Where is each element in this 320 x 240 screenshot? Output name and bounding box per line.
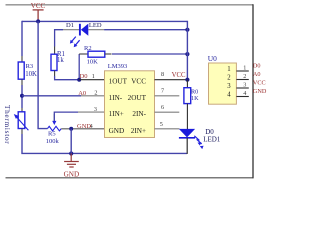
- wire D1 anode stub: [88, 29, 104, 31]
- svg-text:5: 5: [160, 121, 163, 128]
- wire U0 pin1 stub: [236, 70, 248, 72]
- wire U0 pin4 stub: [236, 96, 248, 98]
- svg-text:7: 7: [161, 87, 164, 94]
- potentiometer R5: [46, 114, 62, 145]
- svg-text:4: 4: [227, 91, 231, 98]
- wire D0 node to IC pin1: [79, 79, 104, 81]
- wire top VCC rail: [22, 20, 187, 22]
- svg-text:LED: LED: [89, 22, 102, 29]
- wire R1 bottom to D0 node: [55, 76, 80, 80]
- wire R1 top stub: [54, 47, 56, 55]
- svg-text:2: 2: [243, 73, 246, 80]
- svg-text:2IN-: 2IN-: [132, 110, 146, 118]
- node junction VCC stem: [36, 19, 40, 23]
- svg-text:GND: GND: [77, 123, 91, 130]
- svg-text:VCC: VCC: [31, 2, 46, 10]
- svg-text:VCC: VCC: [172, 72, 186, 79]
- wire U0 pin2 stub: [236, 79, 248, 81]
- ground symbol: [64, 154, 80, 179]
- power symbol VCC: [31, 2, 46, 21]
- wire R2 left stub: [79, 53, 88, 55]
- node junction LED row: [185, 28, 189, 32]
- svg-text:1K: 1K: [191, 95, 199, 102]
- wire D1 cathode stub: [63, 29, 80, 31]
- wire R2 to VCC column: [112, 53, 187, 55]
- wire VCC column right: [186, 21, 188, 80]
- LED D0 LED1: [179, 128, 221, 149]
- svg-text:2: 2: [227, 74, 231, 81]
- svg-text:2OUT: 2OUT: [128, 94, 147, 102]
- LED D1: [66, 22, 102, 47]
- svg-text:1IN-: 1IN-: [109, 94, 123, 102]
- svg-text:R3: R3: [26, 63, 34, 70]
- svg-text:GND: GND: [64, 171, 80, 179]
- node junction R2 right: [185, 52, 189, 56]
- wire left rail to bottom: [22, 134, 187, 153]
- svg-text:A0: A0: [78, 90, 86, 97]
- wire VCC branch down to pot: [38, 21, 47, 128]
- wire thermistor top stub: [21, 108, 23, 112]
- node junction ground: [69, 151, 73, 155]
- wire R5 right to IC pin4: [61, 128, 104, 130]
- wire R3 bottom pin stub: [21, 79, 23, 85]
- wire A0 from left rail to IC pin2: [22, 95, 81, 97]
- svg-text:D0: D0: [205, 128, 214, 136]
- svg-text:R2: R2: [84, 45, 92, 52]
- svg-text:1: 1: [227, 66, 230, 73]
- node junction D0: [77, 78, 81, 82]
- thermistor RT1: [14, 112, 29, 131]
- wire R1 bottom stub: [54, 71, 56, 77]
- sheet border frame: [6, 4, 254, 178]
- node junction R5 right: [69, 127, 73, 131]
- svg-text:LED1: LED1: [203, 136, 221, 144]
- wire LED1 cathode down to ground rail: [186, 138, 188, 154]
- svg-text:VCC: VCC: [253, 80, 266, 87]
- svg-text:10K: 10K: [25, 71, 37, 78]
- resistor R2: [84, 45, 105, 66]
- svg-text:D0: D0: [80, 73, 88, 80]
- wire R3 top pin stub: [21, 56, 23, 62]
- svg-text:10K: 10K: [87, 59, 99, 66]
- wire pot wiper to IC pin3: [54, 112, 78, 121]
- svg-text:Thermistor: Thermistor: [3, 105, 11, 144]
- wire D1 anode to VCC column: [104, 29, 187, 31]
- wire IC pin6 stub: [155, 111, 180, 113]
- node junction A0 tap: [20, 94, 24, 98]
- resistor R0: [184, 88, 199, 104]
- svg-text:1OUT: 1OUT: [109, 77, 128, 85]
- wire R5 junction down to ground rail: [70, 129, 72, 154]
- wire R0 bottom to LED1 anode: [186, 104, 188, 129]
- wire U0 pin3 stub: [236, 87, 248, 89]
- svg-text:100k: 100k: [46, 138, 60, 145]
- wire R0 top stub: [186, 80, 188, 88]
- svg-text:1IN+: 1IN+: [109, 110, 124, 118]
- svg-text:GND: GND: [253, 88, 267, 95]
- wire IC pin8 to VCC column: [155, 79, 188, 81]
- svg-text:1k: 1k: [57, 57, 64, 64]
- wire IC pin3 stub: [78, 111, 105, 113]
- svg-text:1: 1: [92, 73, 95, 80]
- wire left rail middle: [21, 85, 23, 108]
- svg-text:3: 3: [94, 106, 97, 113]
- wire R2 right stub: [105, 53, 112, 55]
- wire IC pin2 stub: [81, 95, 105, 97]
- op-amp U1 LM393: [105, 63, 155, 138]
- svg-text:U0: U0: [208, 54, 217, 63]
- resistor R3: [18, 62, 37, 79]
- svg-text:D1: D1: [66, 22, 74, 29]
- svg-text:8: 8: [161, 71, 164, 78]
- svg-text:VCC: VCC: [131, 77, 146, 85]
- node junction pin8 VCC: [185, 78, 189, 82]
- wire IC pin7 stub: [155, 95, 180, 97]
- connector U0: [208, 54, 237, 104]
- svg-text:3: 3: [227, 83, 231, 90]
- svg-text:2IN+: 2IN+: [131, 127, 146, 135]
- svg-text:R5: R5: [48, 130, 56, 137]
- wire thermistor bottom stub: [21, 129, 23, 135]
- wire R2 left leg down: [78, 54, 80, 80]
- svg-text:2: 2: [94, 89, 97, 96]
- resistor R1: [51, 51, 65, 71]
- svg-text:3: 3: [243, 81, 246, 88]
- wire LED D1 left wire from R1 top corner: [55, 30, 63, 47]
- svg-text:LM393: LM393: [108, 63, 128, 70]
- svg-text:1: 1: [243, 64, 246, 71]
- wire IC pin5 stub to LED1: [155, 128, 180, 130]
- svg-text:D0: D0: [253, 63, 261, 70]
- wire left rail upper: [21, 21, 23, 56]
- svg-text:GND: GND: [109, 127, 125, 135]
- svg-text:A0: A0: [253, 71, 261, 78]
- svg-text:6: 6: [161, 104, 164, 111]
- svg-text:4: 4: [243, 90, 246, 97]
